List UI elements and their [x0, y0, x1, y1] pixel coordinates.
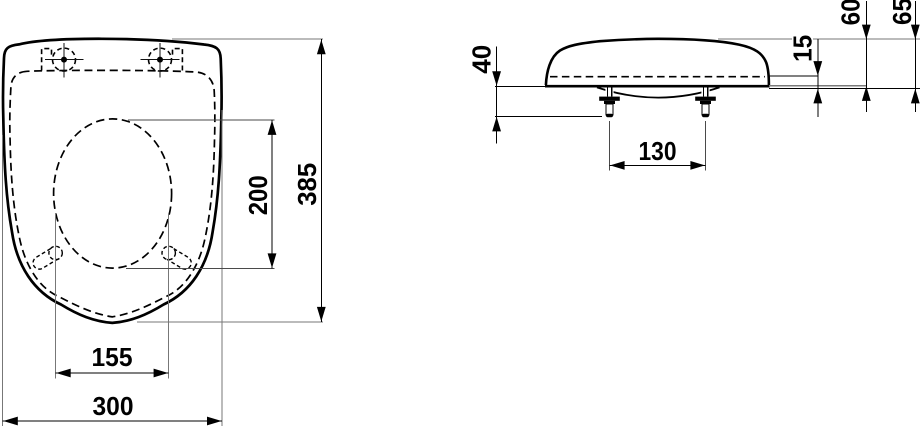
extension line 385 bottom	[137, 321, 323, 323]
extension line top (lid top level)	[718, 38, 792, 40]
bumper right (dashed circle with tail)	[162, 246, 191, 269]
crosshair right hinge	[141, 59, 180, 61]
dimension 200	[271, 120, 273, 269]
dimension 60	[865, 1, 867, 112]
svg-text:200: 200	[243, 175, 273, 215]
hinge center dot left	[61, 57, 67, 63]
extension line 300 left	[2, 135, 4, 426]
extension line 300 right	[221, 110, 223, 426]
reference line floor (black)	[769, 87, 920, 89]
reference line seat bottom (gray)	[769, 85, 866, 87]
outer seat outline	[3, 39, 222, 323]
lid dome outline	[546, 39, 769, 85]
dimension 40	[496, 47, 498, 144]
dimension 130	[610, 164, 706, 166]
dimension 65	[914, 1, 916, 112]
svg-text:65: 65	[887, 0, 917, 25]
svg-text:40: 40	[467, 45, 497, 74]
dimension 385	[320, 39, 322, 322]
extension line 200 top	[128, 119, 275, 121]
svg-text:15: 15	[788, 35, 818, 62]
dimension 300	[3, 420, 222, 422]
extension line 130 left	[609, 121, 611, 171]
extension line 155 left	[55, 214, 57, 379]
hinge hole circle right	[149, 48, 172, 71]
bumper left (dashed circle with tail)	[33, 246, 62, 269]
svg-text:130: 130	[639, 136, 677, 166]
seat ring arc	[597, 87, 720, 97]
crosshair left hinge	[45, 59, 84, 61]
extension line 200 bottom	[126, 268, 275, 270]
extension line 130 right	[705, 121, 707, 171]
lid bottom edge (thick)	[545, 85, 770, 88]
svg-text:155: 155	[92, 342, 133, 372]
extension line 385 top	[172, 38, 323, 40]
hinge bolt right	[695, 88, 716, 118]
svg-text:300: 300	[93, 391, 134, 421]
hinge hole circle left	[53, 48, 76, 71]
hinge plate right (dashed bracket)	[173, 49, 183, 71]
svg-text:385: 385	[292, 163, 322, 206]
extension line ring top level	[769, 75, 818, 77]
svg-text:60: 60	[836, 0, 866, 25]
extension line 155 right	[168, 214, 170, 379]
hinge bolt left	[599, 88, 620, 118]
hinge plate left (dashed bracket)	[42, 49, 52, 71]
inner dashed contour	[10, 70, 215, 317]
lid inner dashed line	[550, 76, 765, 78]
hinge center dot right	[157, 57, 163, 63]
dimension 15	[817, 39, 819, 117]
extension line 40 bottom (bolt tip level)	[495, 115, 602, 117]
seat hole dashed ellipse	[54, 119, 172, 268]
extension line 40 top (seat bottom level)	[495, 85, 546, 87]
dimension 155	[56, 372, 169, 374]
